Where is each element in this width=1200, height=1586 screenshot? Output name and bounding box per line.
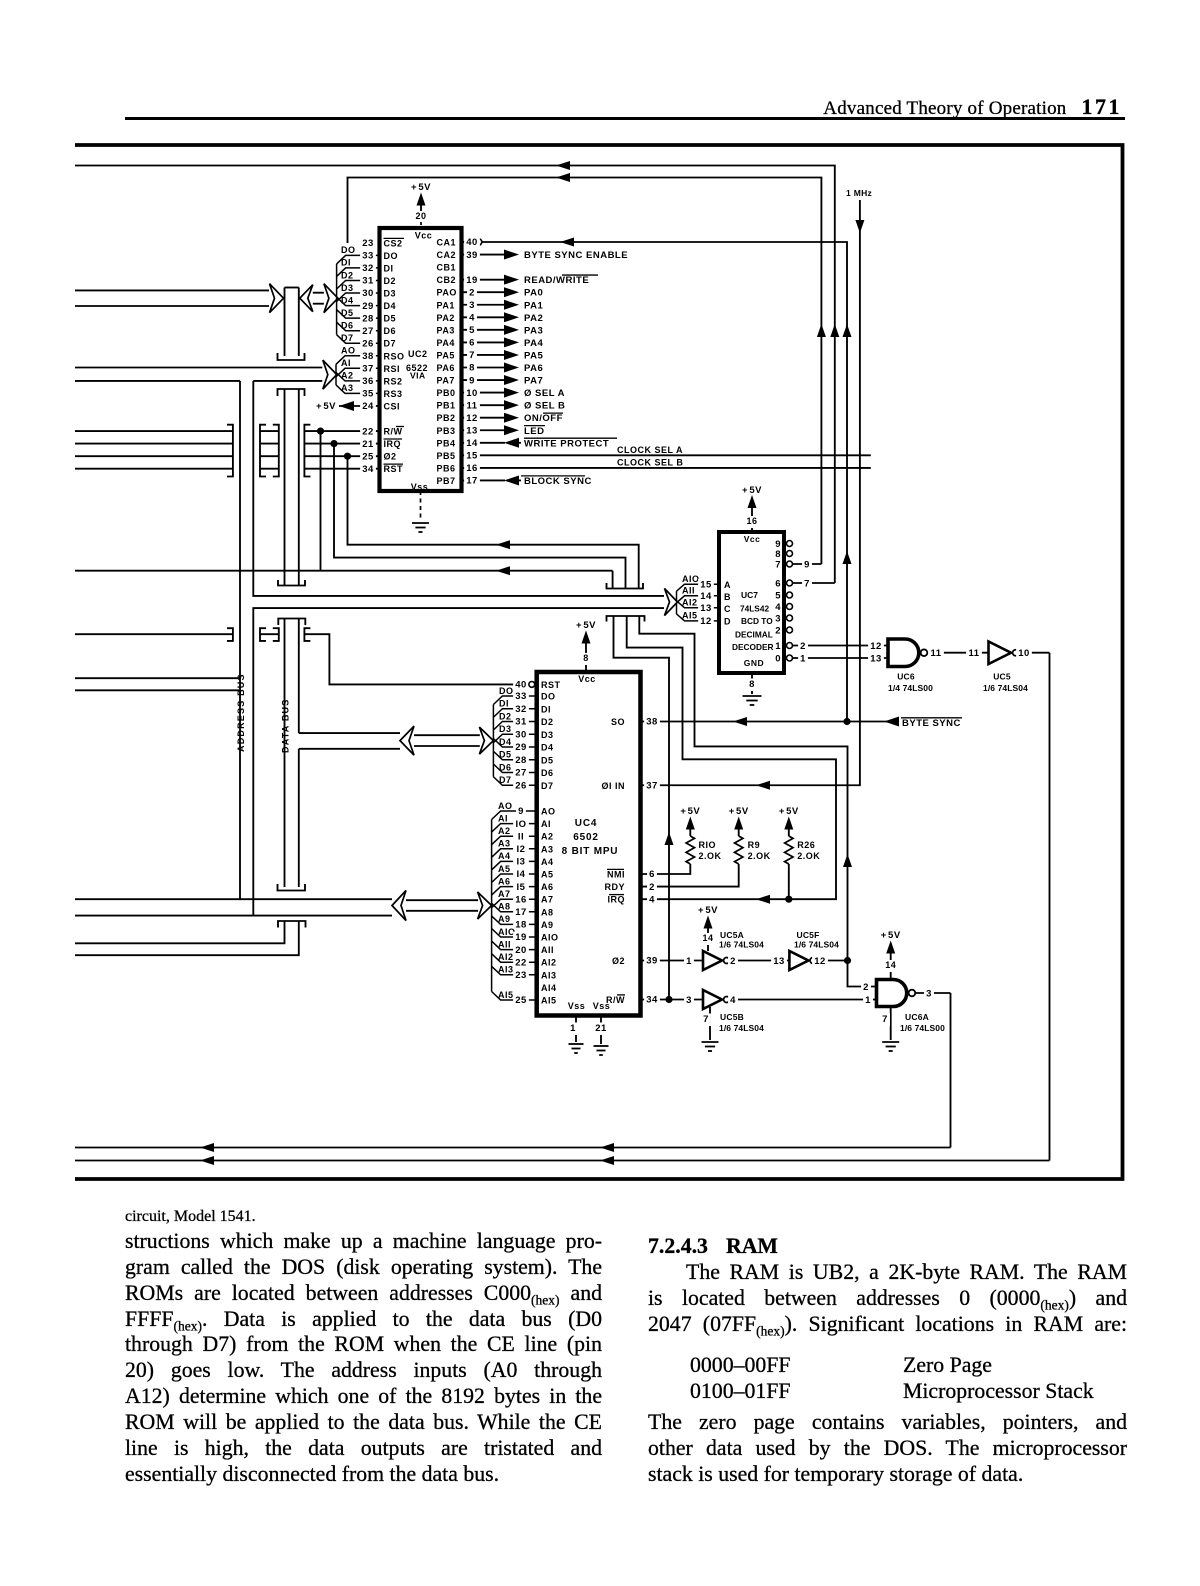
svg-text:SO: SO bbox=[611, 717, 625, 727]
svg-text:29: 29 bbox=[515, 742, 527, 753]
svg-text:6502: 6502 bbox=[573, 832, 598, 843]
bus arrowhead at UC4 address fan bbox=[478, 892, 492, 919]
wire UC5F output to O2 net junction bbox=[816, 960, 848, 962]
svg-text:I2: I2 bbox=[517, 844, 526, 855]
signal BYTE SYNC ENABLE (CA2) bbox=[504, 250, 519, 260]
ground pin 7 of UC5B bbox=[709, 1007, 711, 1040]
svg-text:22: 22 bbox=[362, 426, 374, 437]
junction dot R/W-22 bbox=[317, 428, 324, 435]
svg-text:11: 11 bbox=[466, 400, 477, 411]
svg-text:R9: R9 bbox=[748, 840, 761, 850]
svg-text:10: 10 bbox=[466, 388, 478, 399]
svg-text:Vss: Vss bbox=[411, 482, 429, 492]
svg-text:PA4: PA4 bbox=[437, 338, 455, 348]
svg-text:+ 5V: + 5V bbox=[881, 930, 901, 941]
svg-text:DI: DI bbox=[341, 258, 351, 268]
svg-text:+ 5V: + 5V bbox=[729, 806, 749, 817]
bus comb terminator lower y=616 bbox=[607, 616, 645, 622]
svg-text:18: 18 bbox=[515, 920, 527, 931]
signal BLOCK SYNC (PB7, input) bbox=[504, 475, 519, 485]
svg-text:AI2: AI2 bbox=[682, 598, 698, 608]
svg-text:DATA BUS: DATA BUS bbox=[280, 699, 290, 753]
svg-text:33: 33 bbox=[362, 251, 374, 262]
svg-text:1 MHz: 1 MHz bbox=[846, 188, 872, 198]
svg-text:A9: A9 bbox=[541, 920, 554, 930]
svg-text:I4: I4 bbox=[517, 869, 526, 880]
svg-text:+ 5V: + 5V bbox=[576, 620, 596, 631]
svg-text:UC5: UC5 bbox=[993, 672, 1011, 682]
svg-text:1/4 74LS00: 1/4 74LS00 bbox=[888, 683, 933, 693]
svg-text:8: 8 bbox=[775, 549, 781, 560]
svg-text:15: 15 bbox=[700, 579, 712, 590]
svg-text:DO: DO bbox=[341, 245, 356, 255]
svg-text:1: 1 bbox=[686, 956, 692, 967]
UC7 output 7 wire to net 9 bbox=[793, 563, 822, 565]
svg-text:1/6 74LS04: 1/6 74LS04 bbox=[983, 683, 1028, 693]
svg-text:2: 2 bbox=[863, 982, 869, 993]
data column exit cap y=921 bbox=[278, 921, 306, 928]
UC7 output 6 wire to net 7 bbox=[793, 582, 835, 584]
gate UC5B 1/6 74LS04 inverter bbox=[703, 990, 722, 1009]
svg-text:9: 9 bbox=[518, 806, 524, 817]
ground Vss pin 21 of UC4 bbox=[600, 1016, 602, 1045]
svg-text:R/W: R/W bbox=[384, 427, 403, 437]
bus arrowhead at UC4 data fan bbox=[479, 727, 493, 754]
wire R/W: down through bus comb to x=669 bbox=[612, 571, 614, 589]
svg-text:35: 35 bbox=[362, 389, 374, 400]
wire 1 MHz clock down to O1-IN pin 37 of UC4 bbox=[641, 200, 860, 785]
svg-text:14: 14 bbox=[700, 591, 712, 602]
svg-text:CLOCK SEL B: CLOCK SEL B bbox=[617, 457, 683, 467]
address bus narrow shaft bbox=[406, 899, 478, 901]
svg-text:D6: D6 bbox=[499, 762, 512, 772]
svg-text:PA6: PA6 bbox=[437, 363, 455, 373]
svg-text:1: 1 bbox=[865, 995, 871, 1006]
junction dot UC5F output / O2 net bbox=[844, 957, 851, 964]
svg-text:UC5A: UC5A bbox=[720, 930, 744, 940]
svg-text:D6: D6 bbox=[384, 326, 397, 336]
svg-text:A3: A3 bbox=[541, 844, 554, 854]
bus-gap cap bar right of data columns bbox=[304, 425, 310, 477]
svg-text:CS2: CS2 bbox=[384, 239, 403, 249]
svg-text:22: 22 bbox=[515, 957, 527, 968]
bus arrowhead pair at UC2 D pins bbox=[300, 285, 313, 312]
svg-text:Vcc: Vcc bbox=[415, 231, 433, 241]
arrow on net-9 line bbox=[556, 173, 570, 182]
address bus right column lower segment and wire to UC7 bbox=[253, 608, 664, 916]
svg-text:A: A bbox=[724, 580, 731, 590]
signal CLOCK SEL A (PB5) bbox=[505, 454, 871, 456]
svg-text:D2: D2 bbox=[541, 717, 554, 727]
svg-text:AIO: AIO bbox=[498, 927, 516, 937]
svg-text:31: 31 bbox=[362, 276, 374, 287]
svg-text:26: 26 bbox=[515, 780, 527, 791]
svg-text:AI: AI bbox=[498, 813, 508, 823]
svg-text:PA7: PA7 bbox=[524, 376, 543, 387]
svg-text:D7: D7 bbox=[499, 775, 512, 785]
svg-text:IO: IO bbox=[515, 819, 526, 830]
svg-text:7: 7 bbox=[703, 1014, 709, 1025]
svg-text:PAO: PAO bbox=[437, 288, 457, 298]
svg-text:DO: DO bbox=[541, 692, 556, 702]
svg-text:BCD TO: BCD TO bbox=[741, 616, 773, 626]
up arrow on R/W vertical x=669 bbox=[665, 832, 674, 845]
UC7 output 0 wire to UC6 input 13 bbox=[793, 657, 889, 659]
svg-text:19: 19 bbox=[466, 275, 478, 286]
bus arrowhead pointing left on UC4 address bus bbox=[392, 891, 406, 921]
svg-text:D3: D3 bbox=[541, 730, 554, 740]
data column cap at y=585.5 (feet) bbox=[278, 580, 305, 586]
svg-text:RSO: RSO bbox=[384, 351, 405, 361]
wire from page edge joining address column y=678.2 bbox=[75, 677, 240, 679]
address bus left column bbox=[239, 381, 241, 899]
wire net-7 from page edge to UC7 output 6 (top line y=165.5) bbox=[75, 166, 835, 584]
svg-text:PA5: PA5 bbox=[524, 350, 543, 361]
arrow on O2 wire bbox=[496, 540, 510, 549]
svg-text:A2: A2 bbox=[498, 826, 511, 836]
svg-text:BYTE SYNC: BYTE SYNC bbox=[902, 718, 961, 729]
bus comb terminator upper y=588.5 bbox=[607, 583, 644, 589]
svg-text:PA2: PA2 bbox=[524, 313, 543, 324]
svg-text:D6: D6 bbox=[341, 321, 354, 331]
svg-text:D7: D7 bbox=[541, 781, 554, 791]
svg-text:UC5B: UC5B bbox=[720, 1012, 744, 1022]
svg-text:D5: D5 bbox=[384, 314, 397, 324]
ground Vss pin 1 of UC4 bbox=[575, 1016, 577, 1043]
svg-text:PA1: PA1 bbox=[437, 300, 455, 310]
UC2 data comb D0-D7 bbox=[337, 255, 380, 264]
svg-text:A6: A6 bbox=[498, 876, 511, 886]
svg-text:AI3: AI3 bbox=[541, 970, 557, 980]
svg-text:D3: D3 bbox=[341, 283, 354, 293]
svg-text:PB6: PB6 bbox=[437, 463, 456, 473]
svg-text:DI: DI bbox=[499, 699, 509, 709]
svg-text:UC4: UC4 bbox=[575, 818, 597, 829]
svg-text:+ 5V: + 5V bbox=[316, 401, 336, 412]
wire from page edge joining address column y=690.3 bbox=[75, 689, 240, 691]
svg-text:27: 27 bbox=[362, 326, 374, 337]
signal O SEL A (PB0) bbox=[504, 388, 519, 398]
svg-text:AI: AI bbox=[341, 358, 351, 368]
data column top cap y=389 bbox=[278, 389, 305, 396]
svg-text:7: 7 bbox=[882, 1014, 888, 1025]
svg-text:D4: D4 bbox=[384, 301, 397, 311]
wire R/W pin34 of UC4 to UC5B bbox=[641, 999, 704, 1001]
svg-text:A9: A9 bbox=[498, 914, 511, 924]
data bus column pair segment 2 bbox=[284, 389, 286, 586]
signal O SEL B (PB1) bbox=[504, 400, 519, 410]
svg-text:A3: A3 bbox=[341, 383, 354, 393]
wire O2 net from dot 25 bbox=[348, 456, 639, 588]
svg-text:Ø2: Ø2 bbox=[384, 452, 397, 462]
svg-text:PB7: PB7 bbox=[437, 476, 456, 486]
svg-text:BYTE SYNC ENABLE: BYTE SYNC ENABLE bbox=[524, 250, 628, 261]
arrow on CA1 line bbox=[560, 238, 574, 247]
up arrow on vertical V1 bbox=[817, 324, 826, 337]
svg-text:A2: A2 bbox=[541, 832, 554, 842]
svg-text:17: 17 bbox=[515, 907, 527, 918]
data column cap at y=360 bbox=[278, 353, 305, 360]
svg-text:CSI: CSI bbox=[384, 402, 401, 412]
svg-text:16: 16 bbox=[746, 516, 757, 526]
svg-text:9: 9 bbox=[469, 375, 475, 386]
up arrow on O2 net vertical x=847.5 bbox=[843, 854, 852, 867]
svg-text:PA3: PA3 bbox=[437, 325, 455, 335]
svg-text:11: 11 bbox=[968, 648, 979, 659]
svg-text:D5: D5 bbox=[341, 308, 354, 318]
svg-text:37: 37 bbox=[362, 364, 374, 375]
svg-text:RST: RST bbox=[384, 464, 404, 474]
svg-text:I5: I5 bbox=[517, 882, 526, 893]
data branch narrow shaft bbox=[414, 734, 480, 736]
svg-text:PB5: PB5 bbox=[437, 451, 456, 461]
svg-text:6: 6 bbox=[775, 578, 781, 589]
svg-text:21: 21 bbox=[595, 1023, 607, 1034]
svg-text:1/6 74LS04: 1/6 74LS04 bbox=[794, 940, 839, 950]
svg-text:24: 24 bbox=[362, 401, 374, 412]
svg-text:CB1: CB1 bbox=[437, 263, 457, 273]
svg-text:IRQ: IRQ bbox=[384, 439, 402, 449]
wire UC6 output to UC5 input bbox=[927, 652, 988, 654]
down arrow on 1MHz line bbox=[855, 220, 864, 233]
svg-text:+ 5V: + 5V bbox=[680, 806, 700, 817]
bus-gap ladder between column pairs bbox=[260, 425, 266, 477]
signal READ/WRITE (CB2) bbox=[504, 275, 519, 285]
svg-text:II: II bbox=[518, 831, 524, 842]
svg-text:34: 34 bbox=[362, 464, 374, 475]
svg-text:Vss: Vss bbox=[568, 1001, 586, 1011]
wire data bus pair from page edge (lower) bbox=[75, 305, 269, 307]
svg-text:DECIMAL: DECIMAL bbox=[735, 630, 773, 640]
svg-text:AI2: AI2 bbox=[498, 952, 514, 962]
bus arrowhead into data column bbox=[270, 284, 284, 313]
svg-text:UC7: UC7 bbox=[741, 590, 758, 600]
svg-text:32: 32 bbox=[362, 263, 374, 274]
svg-text:39: 39 bbox=[646, 956, 658, 967]
up arrow on CA1 vertical (lower) bbox=[843, 551, 852, 564]
RST bus-gap ladder bbox=[260, 628, 266, 641]
svg-text:A3: A3 bbox=[498, 839, 511, 849]
svg-text:29: 29 bbox=[362, 301, 374, 312]
UC2 other pin numbers bbox=[360, 238, 376, 251]
svg-text:12: 12 bbox=[700, 616, 712, 627]
svg-text:AII: AII bbox=[498, 939, 511, 949]
data bus exit wires to page edge bbox=[75, 921, 285, 943]
svg-text:D: D bbox=[724, 617, 731, 627]
svg-text:I3: I3 bbox=[517, 857, 526, 868]
svg-text:PB2: PB2 bbox=[437, 413, 456, 423]
svg-text:39: 39 bbox=[466, 250, 478, 261]
svg-text:Vcc: Vcc bbox=[578, 674, 596, 684]
svg-text:30: 30 bbox=[515, 729, 527, 740]
svg-text:38: 38 bbox=[646, 717, 658, 728]
+5V supply into CS1 pin 24 bbox=[339, 405, 380, 407]
data column bottom cap y=890 bbox=[278, 884, 306, 891]
svg-text:10: 10 bbox=[1018, 648, 1030, 659]
svg-text:ØI IN: ØI IN bbox=[601, 781, 625, 791]
gate UC5A 1/6 74LS04 inverter bbox=[703, 951, 722, 970]
svg-text:AI4: AI4 bbox=[541, 983, 557, 993]
svg-text:A8: A8 bbox=[541, 907, 554, 917]
svg-text:13: 13 bbox=[466, 425, 478, 436]
svg-text:PA7: PA7 bbox=[437, 376, 455, 386]
bus arrowhead into UC7 bbox=[665, 589, 678, 616]
svg-text:2: 2 bbox=[730, 956, 736, 967]
signal CLOCK SEL B (PB6) bbox=[505, 467, 871, 469]
svg-text:DI: DI bbox=[541, 704, 551, 714]
svg-text:40: 40 bbox=[466, 237, 478, 248]
IC UC2 6522 VIA bbox=[380, 228, 462, 491]
svg-text:7: 7 bbox=[804, 578, 810, 589]
svg-text:4: 4 bbox=[649, 894, 655, 905]
svg-text:RS3: RS3 bbox=[384, 389, 403, 399]
gate UC5 1/6 74LS04 inverter bbox=[989, 642, 1012, 665]
svg-text:D7: D7 bbox=[341, 333, 354, 343]
svg-text:D3: D3 bbox=[384, 289, 397, 299]
svg-text:15: 15 bbox=[466, 451, 478, 462]
svg-text:8 BIT MPU: 8 BIT MPU bbox=[562, 846, 619, 857]
UC7 output 1 wire to UC6 input 12 bbox=[793, 645, 889, 647]
signal WRITE PROTECT (PB4, input) bbox=[504, 438, 519, 448]
up arrow on CA1 vertical (upper) bbox=[843, 324, 852, 337]
svg-text:PA3: PA3 bbox=[524, 325, 543, 336]
svg-text:CA1: CA1 bbox=[437, 238, 457, 248]
svg-text:A4: A4 bbox=[541, 857, 554, 867]
data bus column pair segment 1 bbox=[284, 288, 286, 357]
wires R/W IRQ O2 RST from page-left edge (segment 1) bbox=[75, 430, 233, 432]
svg-text:PB4: PB4 bbox=[437, 438, 456, 448]
svg-text:4: 4 bbox=[469, 313, 475, 324]
wire O2 pin39 of UC4 to UC5A bbox=[641, 960, 704, 962]
svg-text:PB3: PB3 bbox=[437, 426, 456, 436]
svg-text:A5: A5 bbox=[541, 870, 554, 880]
svg-text:DO: DO bbox=[384, 251, 399, 261]
svg-text:38: 38 bbox=[362, 351, 374, 362]
svg-text:1/6 74LS04: 1/6 74LS04 bbox=[719, 1023, 764, 1033]
svg-text:2: 2 bbox=[469, 287, 475, 298]
svg-text:12: 12 bbox=[814, 956, 826, 967]
svg-text:ADDRESS BUS: ADDRESS BUS bbox=[236, 673, 246, 752]
svg-text:2.OK: 2.OK bbox=[748, 851, 771, 861]
wire UC6A output pin 3 down to bottom line bbox=[915, 992, 950, 994]
UC7 input comb A10 A11 A12 A15 bbox=[677, 584, 720, 591]
data bus column pair segment 3 bbox=[284, 619, 286, 888]
svg-text:AI5: AI5 bbox=[498, 990, 514, 1000]
RST bus-gap cap right bbox=[304, 628, 310, 641]
svg-text:A5: A5 bbox=[498, 864, 511, 874]
svg-text:3: 3 bbox=[926, 988, 932, 999]
svg-text:3: 3 bbox=[686, 995, 692, 1006]
svg-text:+ 5V: + 5V bbox=[742, 485, 762, 496]
svg-text:37: 37 bbox=[646, 780, 658, 791]
svg-text:9: 9 bbox=[804, 559, 810, 570]
signal ON/OFF (PB2) bbox=[504, 413, 519, 423]
svg-text:1/6 74LS04: 1/6 74LS04 bbox=[719, 940, 764, 950]
svg-text:D2: D2 bbox=[384, 276, 397, 286]
ground at UC2 Vss bbox=[420, 491, 422, 521]
svg-text:1: 1 bbox=[775, 641, 781, 652]
svg-text:14: 14 bbox=[466, 438, 478, 449]
svg-text:12: 12 bbox=[870, 641, 882, 652]
svg-text:BLOCK SYNC: BLOCK SYNC bbox=[524, 476, 592, 487]
wire UC5A output to UC5F input bbox=[730, 960, 790, 962]
svg-text:UC6: UC6 bbox=[897, 672, 915, 682]
junction dot CA1/S0 bbox=[843, 718, 850, 725]
svg-text:VIA: VIA bbox=[410, 371, 426, 381]
svg-text:25: 25 bbox=[515, 995, 527, 1006]
svg-text:LED: LED bbox=[524, 426, 545, 437]
up arrow on vertical V2 bbox=[830, 324, 839, 337]
svg-text:DECODER: DECODER bbox=[732, 642, 774, 652]
svg-text:12: 12 bbox=[466, 413, 478, 424]
svg-text:+ 5V: + 5V bbox=[779, 806, 799, 817]
svg-text:PA1: PA1 bbox=[524, 300, 543, 311]
svg-text:+ 5V: + 5V bbox=[411, 182, 431, 193]
svg-text:AI: AI bbox=[541, 819, 551, 829]
svg-text:D5: D5 bbox=[541, 755, 554, 765]
svg-text:6: 6 bbox=[469, 338, 475, 349]
svg-text:A8: A8 bbox=[498, 902, 511, 912]
svg-text:0: 0 bbox=[775, 653, 781, 664]
svg-text:PA5: PA5 bbox=[437, 350, 455, 360]
svg-text:1/6 74LS00: 1/6 74LS00 bbox=[900, 1023, 945, 1033]
wire address bus pair to UC2 (upper) bbox=[75, 367, 322, 369]
svg-text:PA2: PA2 bbox=[437, 313, 455, 323]
svg-text:AII: AII bbox=[682, 586, 695, 596]
wire data bus pair from page edge (upper) bbox=[75, 289, 269, 291]
wire RST to UC4 pin 40 bbox=[304, 634, 536, 684]
svg-text:D3: D3 bbox=[499, 724, 512, 734]
svg-text:7: 7 bbox=[469, 350, 475, 361]
wire S0 pin38 of UC4 - BYTE SYNC bbox=[641, 721, 899, 723]
svg-text:C: C bbox=[724, 604, 731, 614]
svg-text:A7: A7 bbox=[541, 895, 554, 905]
wire IRQ net from dot 21 bbox=[334, 444, 626, 589]
svg-text:8: 8 bbox=[583, 653, 589, 663]
wire R/W vertical from dot 22 down to long line bbox=[320, 431, 322, 571]
arrow toward S0 bbox=[733, 717, 747, 726]
svg-text:5: 5 bbox=[775, 590, 781, 601]
svg-text:Ø2: Ø2 bbox=[612, 956, 625, 966]
svg-text:6: 6 bbox=[649, 869, 655, 880]
schematic frame (open left side) bbox=[75, 145, 1123, 1179]
svg-text:+ 5V: + 5V bbox=[698, 905, 718, 916]
svg-text:28: 28 bbox=[362, 313, 374, 324]
svg-text:AI3: AI3 bbox=[498, 965, 514, 975]
bottom wire 1 to page edge bbox=[75, 1147, 951, 1149]
UC4 right pin numbers bbox=[644, 716, 660, 729]
UC4 data comb D0-D7 with numbers bbox=[493, 696, 536, 705]
arrow into O1 IN bbox=[756, 781, 770, 790]
svg-text:D4: D4 bbox=[341, 295, 354, 305]
svg-text:AO: AO bbox=[341, 346, 356, 356]
svg-text:ON/OFF: ON/OFF bbox=[524, 413, 563, 424]
svg-text:PB1: PB1 bbox=[437, 401, 456, 411]
svg-text:AIO: AIO bbox=[682, 574, 700, 584]
UC2 pin label overlines bbox=[384, 237, 405, 239]
svg-text:20: 20 bbox=[415, 211, 426, 221]
svg-text:33: 33 bbox=[515, 691, 527, 702]
svg-text:RDY: RDY bbox=[604, 882, 625, 892]
svg-text:2.OK: 2.OK bbox=[797, 851, 820, 861]
arrow on R/W line bbox=[496, 566, 510, 575]
svg-text:R26: R26 bbox=[797, 840, 815, 850]
svg-text:NMI: NMI bbox=[607, 870, 625, 880]
svg-text:IRQ: IRQ bbox=[607, 895, 625, 905]
wire R/W net: long line from page edge y=570.7 bbox=[75, 570, 613, 572]
svg-text:A7: A7 bbox=[498, 889, 511, 899]
wire net-9 from page edge to UC7 output 7 (top line y=177.5) bbox=[348, 178, 822, 565]
